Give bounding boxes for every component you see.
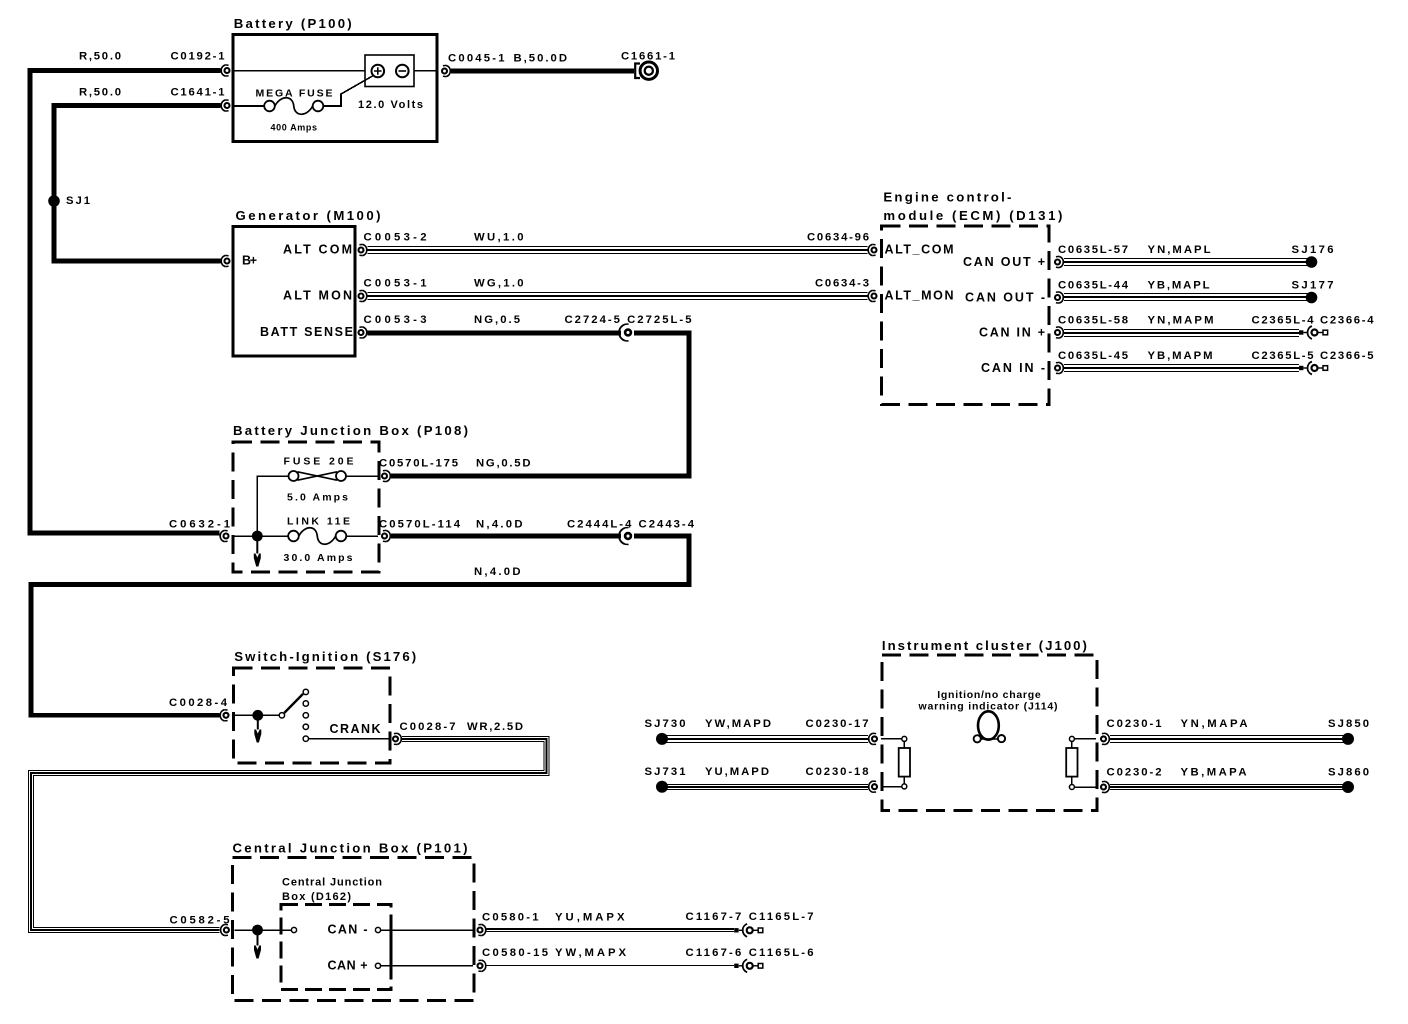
connector C0580-15 bbox=[478, 960, 486, 971]
wire NG,0.5 (BATT SENSE C0053-3 to C2724-5) bbox=[368, 331, 622, 336]
fuse FUSE 20E 5.0 Amps bbox=[289, 471, 347, 481]
splice SJ177 bbox=[1306, 292, 1318, 304]
svg-text:C1167-7 C1165L-7: C1167-7 C1165L-7 bbox=[686, 911, 814, 923]
wire splice to FUSE 20E bbox=[257, 476, 288, 536]
wire CJB splice to D162 pin bbox=[258, 929, 292, 931]
svg-text:C0570L-114: C0570L-114 bbox=[379, 519, 461, 531]
splice SJ731 bbox=[656, 781, 668, 793]
svg-text:C0635L-58: C0635L-58 bbox=[1058, 315, 1128, 327]
connector C0192-1 bbox=[221, 65, 229, 76]
wire FUSE 20E to C0570L-175 bbox=[346, 475, 378, 477]
svg-text:SJ731: SJ731 bbox=[645, 766, 686, 778]
inline connector C2724-5 C2725L-5 bbox=[619, 324, 631, 341]
connector C0635L-58 bbox=[1055, 327, 1063, 338]
svg-text:C0634-3: C0634-3 bbox=[815, 278, 869, 290]
wire D162 border segment between CAN pins bbox=[390, 930, 393, 966]
svg-text:SJ860: SJ860 bbox=[1328, 767, 1369, 779]
inline connector C2365L-4 C2366-4 bbox=[1299, 326, 1328, 339]
arrow other circuits (CJB) bbox=[254, 935, 261, 959]
wire C0230-17 to resistor (cluster left) bbox=[881, 738, 902, 740]
svg-text:CAN +: CAN + bbox=[328, 959, 368, 973]
svg-text:C0635L-44: C0635L-44 bbox=[1058, 280, 1129, 292]
switch contact 2 bbox=[303, 701, 308, 706]
wire WR,2.5D (CRANK C0028-7 to CJB C0582-5) bbox=[31, 739, 547, 930]
inline connector C2444L-4 C2443-4 bbox=[619, 528, 631, 545]
wire YB,MAPL (CAN OUT - to SJ177) bbox=[1064, 293, 1308, 301]
junction dot ignition switch bbox=[252, 710, 263, 721]
switch contact 3 bbox=[303, 713, 308, 718]
wire C0230-18 to resistor (cluster left) bbox=[881, 786, 902, 788]
svg-text:MEGA FUSE: MEGA FUSE bbox=[256, 88, 333, 100]
svg-text:Generator (M100): Generator (M100) bbox=[236, 208, 381, 223]
svg-text:C2444L-4 C2443-4: C2444L-4 C2443-4 bbox=[567, 519, 695, 531]
wire YW,MAPX (C0580-15 to C1167-6) bbox=[487, 965, 735, 967]
inline connector C2365L-5 C2366-5 bbox=[1299, 362, 1328, 375]
wire N,4.0D (C2443-4 to ignition switch C0028-4) bbox=[31, 536, 689, 715]
wire splice to switch pivot bbox=[258, 714, 279, 716]
wire resistor left vertical lower bbox=[903, 777, 905, 784]
pin CAN + (D162) bbox=[375, 963, 380, 968]
svg-text:12.0 Volts: 12.0 Volts bbox=[358, 99, 423, 111]
svg-text:B,50.0D: B,50.0D bbox=[514, 53, 568, 65]
wire WG,1.0 (ALT MON C0053-1 to ECM C0634-3) bbox=[368, 292, 868, 300]
wire YW,MAPD (SJ730 to C0230-17) bbox=[665, 735, 869, 743]
wire LINK 11E to C0570L-114 bbox=[346, 535, 378, 537]
wire battery internal bus bbox=[235, 70, 436, 72]
svg-text:CAN OUT -: CAN OUT - bbox=[965, 291, 1045, 305]
resistor cluster right bbox=[1066, 748, 1077, 777]
connector C1641-1 bbox=[221, 100, 229, 111]
wire R,50.0 battery feed (C0192-1 to C0632-1) bbox=[30, 71, 221, 534]
svg-text:C0635L-57: C0635L-57 bbox=[1058, 244, 1128, 256]
connector C0028-4 bbox=[220, 710, 228, 721]
junction dot BJB bbox=[252, 531, 263, 542]
switch pivot contact bbox=[279, 713, 284, 718]
connector C0635L-45 bbox=[1055, 362, 1063, 373]
svg-text:Box (D162): Box (D162) bbox=[282, 891, 351, 903]
connector C0053-2 (ALT COM) bbox=[359, 244, 367, 255]
wire NG,0.5D (C2725L-5 to C0570L-175) bbox=[391, 333, 689, 476]
connector C0632-1 bbox=[220, 530, 228, 541]
svg-text:WR,2.5D: WR,2.5D bbox=[467, 721, 523, 733]
wire YN,MAPM (CAN IN + to C2365L-4) bbox=[1064, 329, 1299, 337]
svg-text:YB,MAPM: YB,MAPM bbox=[1148, 350, 1213, 362]
component box Battery Junction Box P108 bbox=[233, 442, 379, 572]
connector C0230-18 bbox=[869, 781, 877, 792]
svg-text:C0634-96: C0634-96 bbox=[807, 232, 869, 244]
wire mega fuse to positive terminal bbox=[323, 76, 372, 106]
switch contact 4 bbox=[303, 724, 308, 729]
component box Central Junction Box P101 bbox=[233, 858, 475, 1001]
svg-text:YN,MAPM: YN,MAPM bbox=[1148, 315, 1214, 327]
svg-text:CAN IN +: CAN IN + bbox=[979, 326, 1045, 340]
resistor cluster left bbox=[899, 748, 910, 777]
splice SJ176 bbox=[1306, 256, 1318, 268]
svg-text:C2365L-5 C2366-5: C2365L-5 C2366-5 bbox=[1252, 350, 1374, 362]
wire C0230-1 to resistor (cluster right) bbox=[1074, 738, 1096, 740]
svg-text:module (ECM) (D131): module (ECM) (D131) bbox=[883, 208, 1062, 223]
svg-text:C0570L-175: C0570L-175 bbox=[379, 458, 458, 470]
svg-text:C0192-1: C0192-1 bbox=[171, 51, 225, 63]
pin CAN - (D162) bbox=[375, 927, 380, 932]
battery negative terminal bbox=[396, 65, 409, 78]
svg-text:C0635L-45: C0635L-45 bbox=[1058, 350, 1128, 362]
splice SJ1 bbox=[48, 195, 60, 207]
wire CAN - to C0580-1 bbox=[381, 929, 473, 931]
svg-text:SJ730: SJ730 bbox=[645, 718, 686, 730]
switch lever bbox=[284, 694, 303, 713]
svg-text:Ignition/no charge: Ignition/no charge bbox=[937, 689, 1041, 701]
wire B,50.0D (C0045-1 to C1661-1) bbox=[451, 69, 634, 74]
wire R,50.0 generator feed (C1641-1 to C1893-1 via SJ1) bbox=[54, 106, 221, 262]
svg-text:CAN -: CAN - bbox=[328, 923, 368, 937]
svg-text:30.0 Amps: 30.0 Amps bbox=[284, 552, 353, 564]
wire WU,1.0 (ALT COM C0053-2 to ECM C0634-96) bbox=[368, 246, 868, 254]
ring terminal C1661-1 bbox=[635, 62, 657, 79]
connector C0635L-44 bbox=[1055, 292, 1063, 303]
svg-text:SJ1: SJ1 bbox=[66, 195, 90, 207]
wire C0230-2 to resistor (cluster right) bbox=[1074, 786, 1096, 788]
switch contact 5 (CRANK) bbox=[303, 736, 308, 741]
connector C0570L-114 bbox=[382, 530, 390, 541]
arrow other circuits (BJB) bbox=[254, 541, 261, 567]
connector C0053-1 (ALT MON) bbox=[359, 290, 367, 301]
svg-text:CAN OUT +: CAN OUT + bbox=[963, 255, 1045, 269]
svg-text:BATT SENSE: BATT SENSE bbox=[260, 325, 353, 339]
svg-text:CRANK: CRANK bbox=[330, 722, 381, 736]
splice SJ850 bbox=[1342, 733, 1354, 745]
battery terminal box bbox=[365, 55, 414, 87]
splice SJ860 bbox=[1342, 781, 1354, 793]
svg-text:400 Amps: 400 Amps bbox=[271, 123, 318, 133]
svg-text:C2365L-4 C2366-4: C2365L-4 C2366-4 bbox=[1252, 315, 1375, 327]
component box Central Junction Box D162 (inner) bbox=[281, 905, 391, 990]
svg-text:ALT_COM: ALT_COM bbox=[885, 243, 954, 257]
wire YN,MAPA (C0230-1 to SJ850) bbox=[1110, 735, 1345, 743]
wire CJB input bbox=[235, 929, 258, 931]
node cluster left bottom bbox=[902, 784, 907, 789]
wire BJB input to splice bbox=[235, 535, 258, 537]
svg-text:C1167-6 C1165L-6: C1167-6 C1165L-6 bbox=[686, 947, 814, 959]
svg-text:R,50.0: R,50.0 bbox=[79, 51, 121, 63]
wire YN,MAPL (CAN OUT + to SJ176) bbox=[1064, 258, 1308, 266]
wire YB,MAPM (CAN IN - to C2365L-5) bbox=[1064, 364, 1299, 372]
battery positive terminal bbox=[372, 65, 385, 78]
svg-text:5.0 Amps: 5.0 Amps bbox=[287, 492, 348, 504]
connector C0634-3 bbox=[868, 290, 876, 301]
svg-text:C0230-18: C0230-18 bbox=[806, 766, 869, 778]
svg-text:NG,0.5: NG,0.5 bbox=[474, 314, 520, 326]
svg-text:Instrument cluster (J100): Instrument cluster (J100) bbox=[882, 638, 1087, 653]
wire mega fuse input bbox=[235, 105, 265, 107]
node cluster right top bbox=[1069, 736, 1074, 741]
component box Generator M100 bbox=[233, 227, 355, 357]
svg-text:B+: B+ bbox=[242, 254, 257, 268]
connector C0570L-175 bbox=[382, 470, 390, 481]
inline connector C1167-7 C1165L-7 bbox=[734, 924, 763, 937]
component box Battery P100 bbox=[233, 35, 437, 142]
svg-text:R,50.0: R,50.0 bbox=[79, 87, 121, 99]
arrow other circuits (switch) bbox=[254, 720, 261, 743]
connector C0230-1 bbox=[1101, 733, 1109, 744]
wire YU,MAPX (C0580-1 to C1167-7) bbox=[487, 929, 735, 932]
node cluster right bottom bbox=[1069, 785, 1074, 790]
connector C0634-96 bbox=[868, 244, 876, 255]
svg-text:SJ177: SJ177 bbox=[1292, 280, 1334, 292]
inline connector C1167-6 C1165L-6 bbox=[734, 959, 763, 972]
wire switch input bbox=[235, 714, 258, 716]
connector C0582-5 bbox=[221, 924, 229, 935]
svg-text:SJ176: SJ176 bbox=[1292, 244, 1334, 256]
wire CAN + to C0580-15 bbox=[381, 965, 473, 967]
wire splice to LINK 11E bbox=[263, 535, 289, 537]
svg-text:FUSE 20E: FUSE 20E bbox=[284, 456, 354, 468]
splice SJ730 bbox=[656, 733, 668, 745]
connector C0028-7 bbox=[393, 733, 401, 744]
component box ECM D131 bbox=[882, 226, 1050, 405]
connector C0580-1 bbox=[478, 924, 486, 935]
fusible link LINK 11E 30.0 Amps bbox=[288, 528, 346, 545]
svg-text:Central Junction: Central Junction bbox=[282, 877, 382, 889]
connector C0053-3 (BATT SENSE) bbox=[359, 327, 367, 338]
svg-text:C0230-17: C0230-17 bbox=[806, 718, 869, 730]
wire resistor right vertical bbox=[1071, 741, 1073, 748]
switch contact 1 bbox=[303, 689, 308, 694]
connector C0635L-57 bbox=[1055, 256, 1063, 267]
wire YB,MAPA (C0230-2 to SJ860) bbox=[1110, 784, 1345, 790]
svg-text:YN,MAPL: YN,MAPL bbox=[1148, 244, 1211, 256]
wire N,4.0D (C0570L-114 to C2444L-4) bbox=[391, 534, 621, 539]
connector C0230-17 bbox=[869, 733, 877, 744]
svg-text:C1641-1: C1641-1 bbox=[171, 87, 225, 99]
component box Instrument cluster J100 bbox=[882, 655, 1097, 811]
svg-text:C0580-15: C0580-15 bbox=[482, 947, 548, 959]
svg-text:SJ850: SJ850 bbox=[1328, 718, 1369, 730]
node D162 input pin bbox=[291, 927, 296, 932]
indicator bulb J114 bbox=[974, 711, 1006, 742]
connector C1893-1 (pin B+) bbox=[221, 255, 229, 266]
component box Switch-Ignition S176 bbox=[234, 668, 391, 763]
svg-text:YB,MAPL: YB,MAPL bbox=[1148, 280, 1210, 292]
connector C0230-2 bbox=[1101, 781, 1109, 792]
connector C0045-1 bbox=[442, 65, 450, 76]
wire CRANK contact to C0028-7 bbox=[309, 738, 390, 740]
junction dot CJB bbox=[252, 925, 263, 936]
fuse MEGA FUSE bbox=[264, 98, 323, 115]
wire resistor left vertical bbox=[903, 741, 905, 748]
wire YU,MAPD (SJ731 to C0230-18) bbox=[665, 784, 869, 790]
node cluster left top bbox=[902, 736, 907, 741]
wire resistor right vertical lower bbox=[1071, 777, 1073, 785]
